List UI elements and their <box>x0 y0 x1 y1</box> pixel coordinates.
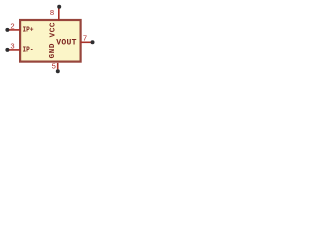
svg-text:8: 8 <box>50 10 55 18</box>
pin number 7 <box>83 36 88 44</box>
svg-text:5: 5 <box>51 63 56 71</box>
pin 5 wire GND <box>57 63 59 70</box>
pin name VOUT <box>56 38 77 47</box>
svg-text:3: 3 <box>10 44 15 52</box>
IC U1 body <box>20 20 81 62</box>
pin 8 wire VCC <box>58 9 60 21</box>
pin 2 wire IP+ <box>9 29 21 31</box>
pin name IP+ <box>23 27 34 35</box>
svg-text:VOUT: VOUT <box>56 38 77 47</box>
pin 2 endpoint dot <box>5 28 9 32</box>
pin name GND (rotated) <box>49 43 57 58</box>
svg-text:IP-: IP- <box>23 47 34 55</box>
svg-text:IP+: IP+ <box>23 27 34 35</box>
pin name VCC (rotated) <box>49 22 57 37</box>
pin 3 wire IP- <box>9 49 21 51</box>
svg-text:VCC: VCC <box>49 22 57 37</box>
pin name IP- <box>23 47 34 55</box>
pin 5 endpoint dot <box>56 69 60 73</box>
svg-text:2: 2 <box>10 24 15 32</box>
pin number 5 <box>51 63 56 71</box>
pin 7 endpoint dot <box>91 40 95 44</box>
svg-text:7: 7 <box>83 36 88 44</box>
pin 8 endpoint dot <box>57 5 61 9</box>
pin number 8 <box>50 10 55 18</box>
pin number 2 <box>10 24 15 32</box>
pin number 3 <box>10 44 15 52</box>
pin 3 endpoint dot <box>5 48 9 52</box>
pin 7 wire VOUT <box>81 41 91 43</box>
